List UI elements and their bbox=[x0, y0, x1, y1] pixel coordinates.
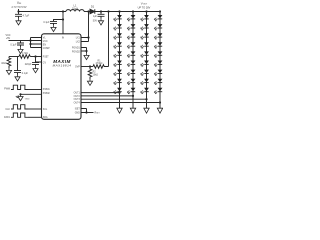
label COUT value bbox=[93, 15, 98, 22]
resistor R1 vertical bbox=[7, 57, 11, 69]
svg-text:CLK: CLK bbox=[5, 108, 10, 111]
wire FSET bbox=[9, 56, 19, 58]
wire ISET stubs bbox=[81, 109, 87, 113]
svg-text:10µH: 10µH bbox=[72, 7, 78, 11]
capacitor C1 4.7uF bbox=[18, 12, 20, 15]
wire LX pin stubs bbox=[81, 38, 89, 42]
node VIO label bbox=[5, 34, 10, 40]
node ISET junction bbox=[85, 111, 87, 113]
wire LX vertical bbox=[88, 12, 90, 42]
svg-text:10kΩ: 10kΩ bbox=[93, 74, 99, 76]
svg-text:PWM: PWM bbox=[4, 87, 10, 90]
wire VIN to IC top pin bbox=[62, 10, 64, 12]
node gnd junction bbox=[19, 93, 21, 95]
wire CLK to IC bbox=[28, 108, 42, 110]
node LX junction bbox=[87, 10, 89, 12]
wire VCC to IC bbox=[9, 40, 31, 42]
svg-text:1µF: 1µF bbox=[93, 15, 98, 18]
svg-text:OUT3: OUT3 bbox=[74, 99, 81, 101]
svg-text:PGND2: PGND2 bbox=[72, 51, 81, 53]
diode D1 bbox=[90, 9, 95, 14]
signal CLK squarewave bbox=[11, 105, 28, 109]
svg-text:OUT1: OUT1 bbox=[74, 93, 81, 95]
node VOUT label bbox=[138, 1, 151, 9]
svg-text:D1: D1 bbox=[91, 4, 95, 8]
wire top rail VIN to L1 bbox=[19, 11, 67, 13]
IC right pin labels bbox=[72, 37, 81, 114]
capacitor C2 bypass bbox=[54, 20, 64, 22]
svg-text:2.7V TO 5.5V: 2.7V TO 5.5V bbox=[11, 6, 26, 9]
svg-text:+5V: +5V bbox=[6, 37, 11, 40]
wire OUT1 bbox=[81, 92, 120, 94]
node PGND junction bbox=[85, 50, 87, 52]
ground C5 bbox=[15, 75, 20, 81]
svg-text:OUT2: OUT2 bbox=[74, 96, 81, 98]
signal PWM squarewave bbox=[11, 85, 28, 89]
svg-text:4.7µF: 4.7µF bbox=[23, 13, 30, 17]
ground C3 bbox=[18, 47, 23, 53]
wire OVP sense vertical bbox=[108, 12, 110, 67]
capacitor C5 0.1uF bbox=[17, 57, 19, 71]
LED string 3 bbox=[141, 10, 150, 113]
node OVP sense junction bbox=[107, 10, 109, 12]
node VIN label bbox=[11, 1, 26, 9]
svg-text:PWM1: PWM1 bbox=[43, 89, 51, 91]
svg-text:PWM2: PWM2 bbox=[43, 93, 51, 95]
ground R4 bbox=[87, 79, 92, 85]
wire VIN stub bbox=[18, 9, 20, 12]
capacitor C4 220pF bbox=[35, 61, 37, 64]
node OVP divider junction bbox=[89, 65, 91, 67]
node FSET junction bbox=[34, 55, 36, 57]
wire ISET out bbox=[87, 112, 94, 114]
svg-text:17kΩ: 17kΩ bbox=[22, 52, 28, 55]
tick mark bbox=[16, 95, 18, 98]
wire OUT4 bbox=[81, 102, 160, 104]
svg-text:LX1: LX1 bbox=[76, 37, 81, 39]
svg-text:40kΩ: 40kΩ bbox=[1, 62, 7, 65]
svg-text:270kΩ: 270kΩ bbox=[96, 63, 103, 65]
node bypass junction bbox=[62, 18, 64, 20]
svg-text:IN: IN bbox=[62, 38, 65, 40]
svg-text:MAX16814: MAX16814 bbox=[53, 64, 72, 68]
signal DATA squarewave bbox=[11, 113, 28, 117]
wire CV pin bbox=[36, 57, 42, 63]
svg-text:ISET: ISET bbox=[75, 109, 81, 111]
wire DATA to IC bbox=[28, 116, 42, 118]
wire D1 to rail end bbox=[95, 11, 160, 13]
svg-text:SDA: SDA bbox=[43, 116, 48, 119]
ground C2 bbox=[51, 25, 56, 31]
ground C4 bbox=[33, 66, 38, 72]
LED string 1 bbox=[114, 10, 123, 113]
ground PGND bbox=[84, 53, 89, 59]
ground R1 bbox=[6, 68, 11, 74]
svg-text:220pF: 220pF bbox=[25, 63, 32, 66]
label R3 value bbox=[96, 60, 103, 65]
svg-text:50V: 50V bbox=[93, 19, 98, 22]
wire OUT2 bbox=[81, 95, 133, 97]
svg-text:OVP: OVP bbox=[75, 67, 80, 69]
svg-text:PGND1: PGND1 bbox=[72, 47, 81, 49]
svg-text:DATA: DATA bbox=[4, 116, 10, 119]
svg-text:0.1µF: 0.1µF bbox=[10, 44, 17, 47]
wire OUT3 bbox=[81, 98, 147, 100]
ground C1 bbox=[16, 19, 21, 25]
inductor L1 bbox=[66, 10, 84, 12]
wire L1 to D1 bbox=[84, 11, 90, 13]
svg-text:COMP: COMP bbox=[43, 48, 50, 50]
LED string 4 bbox=[154, 10, 163, 113]
wire PWM to IC bbox=[28, 89, 42, 91]
svg-text:UP TO 28V: UP TO 28V bbox=[138, 6, 151, 9]
svg-text:GND: GND bbox=[25, 99, 30, 101]
ground COUT bbox=[98, 19, 103, 25]
wire R2 to IC bbox=[30, 56, 41, 58]
svg-text:CV: CV bbox=[43, 62, 47, 64]
LED string 2 bbox=[127, 10, 136, 113]
wire PGND stubs bbox=[81, 48, 87, 54]
svg-text:OUT4: OUT4 bbox=[74, 103, 81, 105]
wire OVP pin bbox=[81, 66, 93, 68]
wire PWM2/GND bbox=[21, 93, 42, 95]
svg-text:0.1µF: 0.1µF bbox=[22, 72, 29, 75]
IC U1 MAX16814 bbox=[42, 34, 82, 120]
resistor R3 OVP top bbox=[93, 65, 109, 69]
label L1 bbox=[72, 4, 78, 11]
svg-text:EN: EN bbox=[43, 44, 47, 46]
node bus junctions bbox=[29, 39, 31, 41]
label R4 value bbox=[93, 71, 99, 76]
node VIN junction bbox=[17, 10, 19, 12]
ground PWM2 bbox=[18, 94, 23, 100]
wire pin bus bbox=[31, 38, 42, 48]
svg-text:0.1µF: 0.1µF bbox=[43, 21, 50, 24]
svg-text:FSET: FSET bbox=[43, 57, 49, 59]
svg-text:LX2: LX2 bbox=[76, 41, 81, 43]
node LX pin junction bbox=[87, 36, 89, 38]
svg-text:RSET: RSET bbox=[95, 112, 101, 115]
capacitor C3 bbox=[20, 41, 22, 44]
svg-text:VCC: VCC bbox=[43, 41, 48, 43]
svg-text:GND: GND bbox=[75, 113, 80, 115]
IC left pin labels bbox=[43, 37, 51, 119]
resistor R2 horizontal bbox=[19, 55, 30, 59]
svg-text:SCL: SCL bbox=[43, 109, 48, 111]
capacitor COUT bbox=[100, 10, 102, 12]
resistor R4 OVP bottom bbox=[88, 67, 92, 80]
